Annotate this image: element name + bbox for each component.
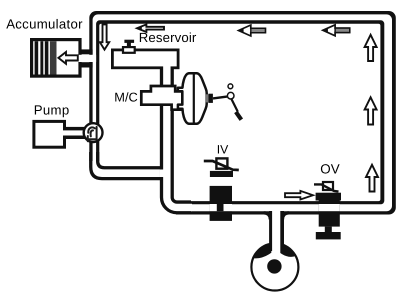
brake caliper left pad <box>253 244 271 258</box>
IV valve body <box>210 186 232 221</box>
reservoir cap stem <box>127 42 131 47</box>
master cylinder M/C body <box>141 86 182 110</box>
IV solenoid slash <box>204 161 239 170</box>
brake booster bell <box>178 73 207 123</box>
flow arrow left gray 1 (top middle) <box>238 25 265 36</box>
wire branch junction right fillet <box>283 213 289 220</box>
wire whites: M/C pipe channel <box>167 64 192 208</box>
wire accumulator stub upper bar <box>80 49 93 54</box>
flow arrow down (top-left, white) <box>100 24 109 49</box>
svg-text:Pump: Pump <box>34 103 70 118</box>
OV drain foot <box>316 232 341 239</box>
OV valve body <box>319 199 340 227</box>
flow arrow up 2 (right side) <box>365 97 377 124</box>
reservoir cap box <box>123 47 135 53</box>
pump motor box <box>34 121 65 147</box>
IV channel <box>210 204 232 211</box>
booster pushrod gray collar <box>206 94 209 102</box>
wheel hub dot <box>267 259 281 273</box>
flow arrow left white (above Reservoir) <box>137 24 164 32</box>
pump circle <box>84 123 103 142</box>
svg-text:Accumulator: Accumulator <box>6 16 83 31</box>
flow arrow up 1 (right side) <box>365 35 377 61</box>
OV solenoid slash <box>314 184 339 191</box>
OV drain stem <box>325 227 332 232</box>
reservoir cap bar <box>124 40 134 43</box>
pump impeller <box>88 127 97 141</box>
accumulator piston <box>50 41 57 74</box>
pedal rod <box>213 97 227 99</box>
accumulator stripe 2 <box>40 41 43 74</box>
IV plunger <box>217 204 224 211</box>
OV pedestal <box>316 193 341 201</box>
wire accumulator stub lower bar <box>80 62 93 67</box>
pedal lever <box>231 99 238 112</box>
accumulator stripe 1 <box>35 41 39 74</box>
outlet valve OV solenoid square <box>323 182 333 190</box>
svg-text:Reservoir: Reservoir <box>139 30 197 45</box>
OV channel <box>319 204 340 211</box>
wire main loop pipe (double-line ring) <box>84 11 396 218</box>
wire wheel branch pipe black <box>269 211 284 251</box>
inlet valve IV solenoid square <box>216 158 227 168</box>
wire pump elbow junction opening <box>160 170 171 178</box>
wheel circle <box>251 244 298 291</box>
wire reservoir-to-M/C down pipe with bottom elbow <box>167 66 191 208</box>
wire pump output elbow inner line <box>98 152 162 168</box>
pedal pad <box>234 111 243 121</box>
wire pump suction channel <box>62 130 84 135</box>
booster pushrod block <box>208 94 213 103</box>
svg-text:IV: IV <box>217 142 229 156</box>
accumulator box <box>30 38 82 78</box>
wire wheel branch channel <box>272 205 280 254</box>
flow arrow left gray 2 (top right) <box>323 25 350 36</box>
IV pedestal <box>210 171 233 177</box>
accumulator stripe 3 <box>45 41 49 74</box>
wire branch junction left fillet <box>264 213 271 220</box>
brake caliper right pad <box>280 244 296 257</box>
flow arrow up 3 (right side) <box>366 165 378 192</box>
booster diaphragm line <box>193 74 195 122</box>
accumulator flow arrow (left, white) <box>58 52 77 64</box>
flow arrow right (white, before OV) <box>285 191 313 200</box>
svg-text:OV: OV <box>320 162 339 177</box>
pedal pivot circles <box>228 84 233 89</box>
wire pump output elbow outer line <box>91 152 163 179</box>
wire accumulator stub channel <box>78 55 97 62</box>
reservoir tank <box>112 50 178 68</box>
wire pump suction stub <box>64 127 87 139</box>
svg-text:M/C: M/C <box>114 89 137 104</box>
